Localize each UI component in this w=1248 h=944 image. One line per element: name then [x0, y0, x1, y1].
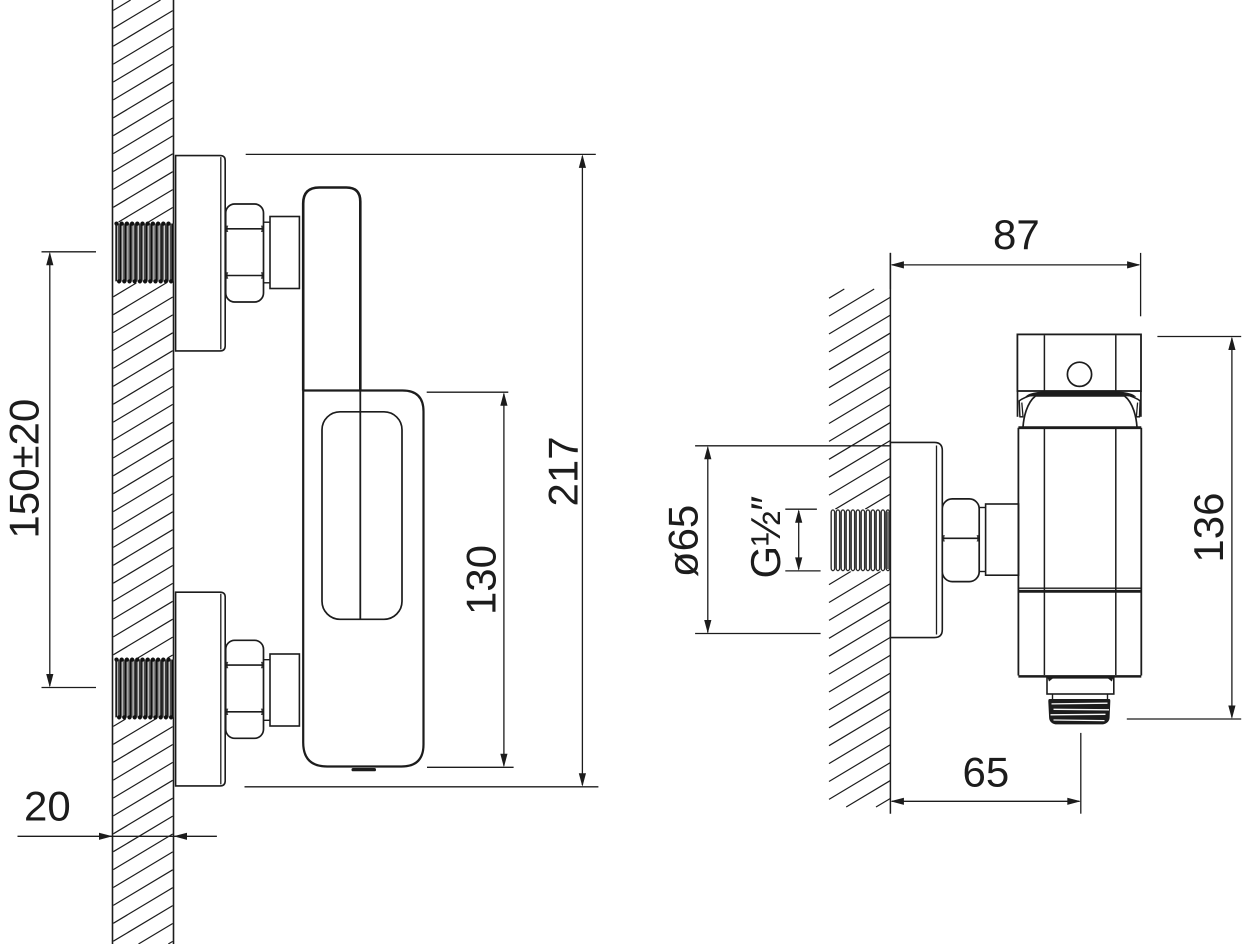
body collar line (thick) [1018, 426, 1141, 429]
threaded pipe B (bottom, in wall) [116, 660, 174, 718]
svg-text:87: 87 [993, 211, 1040, 258]
escutcheon plate (bottom, side view) [176, 592, 226, 786]
valve body top section (front view) [1017, 334, 1141, 391]
escutcheon (right view, side) [890, 442, 942, 637]
body mid section [1017, 428, 1019, 676]
outlet thread (dark) [1048, 699, 1110, 724]
connector (bottom, side view) [264, 659, 271, 661]
faucet body upper (side view) [303, 188, 360, 391]
dim 130 (handle) [427, 391, 509, 393]
wall (right view, hatch) [829, 289, 890, 807]
screw circle [1067, 362, 1091, 386]
wall face line (right view) [889, 253, 891, 814]
body edge line through handle [359, 391, 361, 620]
dim 136 [1157, 336, 1241, 338]
dim 65 [1080, 733, 1082, 814]
cap wing right [1125, 394, 1141, 417]
hex nut (top, side view) [226, 204, 264, 302]
escutcheon plate (top, side view) [176, 156, 226, 351]
svg-text:ø65: ø65 [660, 505, 707, 577]
outlet nub (bottom of handle) [352, 768, 377, 771]
svg-text:217: 217 [540, 436, 587, 506]
inlet thread G1/2 (right view coil) [830, 509, 890, 571]
cap flange side edges [1017, 391, 1019, 417]
body bottom line (thick) [1018, 675, 1141, 678]
divider thick line [1018, 590, 1141, 593]
svg-text:20: 20 [24, 783, 71, 830]
svg-text:G½″: G½″ [742, 496, 789, 579]
dark cap band [1025, 391, 1136, 397]
svg-text:65: 65 [963, 749, 1010, 796]
dim 87 [889, 253, 891, 289]
svg-text:150±20: 150±20 [1, 399, 48, 539]
dim 150±20 [42, 251, 97, 253]
outlet neck [1047, 678, 1114, 694]
divider thin line [1018, 587, 1141, 589]
wall face lines (left view) [112, 0, 114, 944]
connector (top, side view) [264, 221, 271, 223]
connector block (right view) [986, 504, 1019, 575]
hex nut (right view) [942, 499, 979, 582]
wall (left view, section hatch) [113, 0, 172, 944]
dome (front view) [1023, 396, 1137, 427]
svg-text:130: 130 [458, 545, 505, 615]
hex nut (bottom, side view) [226, 640, 264, 738]
handle cutout (side view) [322, 412, 402, 620]
dim ø65 [695, 445, 889, 447]
lever handle outer (side view) [303, 391, 423, 767]
svg-text:136: 136 [1185, 493, 1232, 563]
dim 20 (wall thickness) [18, 835, 217, 837]
cap wing left [1019, 394, 1035, 417]
threaded pipe T (top, in wall) [116, 224, 174, 282]
connector neck (right view) [979, 507, 985, 509]
dim G1/2" [785, 508, 817, 510]
dim 217 (overall) [246, 153, 596, 155]
